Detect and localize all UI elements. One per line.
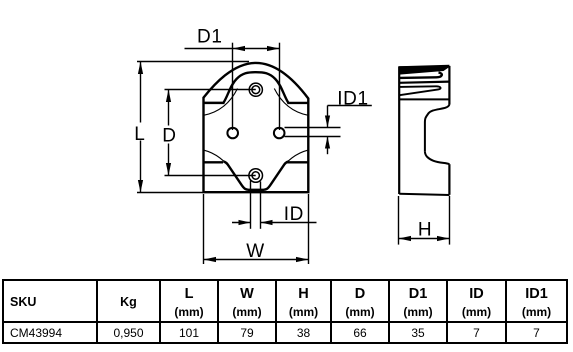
bottom hole inner circle: [252, 172, 259, 179]
H extension left: [398, 196, 400, 245]
ID1 arrow up: [325, 137, 330, 149]
label L background: [132, 123, 147, 141]
side top edge: [399, 66, 450, 67]
svg-text:L: L: [134, 124, 145, 145]
fillet top-left: [204, 89, 238, 116]
ID arrow left: [239, 220, 251, 225]
D1 extension left: [232, 43, 234, 130]
side cap top blob: [399, 66, 449, 75]
W arrow left: [204, 257, 217, 262]
data table: [2, 279, 568, 344]
side cap hairpin 2: [399, 86, 440, 95]
side bottom edge: [399, 194, 449, 195]
side transition top: [425, 105, 450, 124]
fillet bottom-left: [204, 150, 233, 172]
L arrow bottom: [138, 180, 143, 193]
side web edge: [424, 123, 426, 152]
W extension left: [203, 194, 205, 264]
L dimension line: [140, 62, 142, 193]
ID1 extension upper: [285, 127, 341, 129]
D1 arrow left: [233, 46, 246, 51]
svg-text:D: D: [162, 126, 176, 147]
D extension bottom: [165, 175, 256, 177]
side left edge: [398, 67, 400, 195]
H extension right: [449, 196, 451, 245]
top hole outer circle: [249, 83, 262, 96]
D1 dimension line: [185, 48, 280, 50]
bottom band arc: [223, 161, 288, 189]
L extension bottom: [137, 192, 203, 194]
top band inner arc: [223, 72, 288, 103]
D extension top: [165, 89, 256, 91]
D arrow bottom: [166, 163, 171, 176]
ID extension left: [250, 181, 252, 229]
ID1 dim line lower: [327, 137, 329, 154]
side right edge lower: [448, 164, 450, 195]
side transition bottom: [425, 152, 450, 164]
side cap bottom line: [399, 98, 449, 100]
svg-text:W: W: [246, 241, 265, 262]
left middle hole: [227, 128, 238, 139]
outline: arched top, straight sides, flat bottom: [204, 63, 309, 192]
svg-text:D1: D1: [197, 27, 223, 48]
W arrow right: [296, 257, 309, 262]
fillet bottom-right: [279, 150, 308, 172]
D1 extension right: [279, 43, 281, 130]
W extension right: [308, 194, 310, 264]
side cap hairpin 1: [399, 73, 441, 78]
L extension top: [137, 61, 249, 63]
bottom shoulder left: [204, 161, 224, 163]
ID dim tail right: [261, 222, 317, 224]
bottom shoulder right: [286, 161, 308, 163]
side cap band line: [399, 82, 449, 83]
D arrow top: [166, 90, 171, 103]
H dimension line: [399, 238, 450, 240]
ID1 leader: [328, 105, 372, 107]
ID1 extension lower: [285, 136, 341, 138]
ID1 arrow down: [325, 116, 330, 128]
top shoulder right: [287, 102, 308, 104]
D1 arrow right: [267, 46, 280, 51]
top hole inner circle: [252, 86, 260, 94]
D dimension line: [168, 90, 170, 176]
technical drawing: [0, 0, 573, 278]
L arrow top: [138, 62, 143, 75]
fillet top-right: [274, 89, 308, 116]
bottom hole outer circle: [249, 169, 263, 183]
svg-text:H: H: [418, 220, 432, 241]
H arrow left: [399, 236, 412, 241]
label D background: [161, 126, 176, 144]
top shoulder left: [204, 102, 225, 105]
H arrow right: [437, 236, 450, 241]
svg-text:ID1: ID1: [337, 88, 368, 109]
ID1 dim line upper: [327, 106, 329, 128]
ID arrow right: [261, 220, 273, 225]
ID dim tail left: [232, 222, 251, 224]
ID extension right: [260, 182, 262, 229]
svg-text:ID: ID: [284, 204, 304, 225]
right middle hole: [274, 128, 285, 139]
W dimension line: [204, 259, 309, 261]
side right edge upper: [448, 66, 450, 105]
